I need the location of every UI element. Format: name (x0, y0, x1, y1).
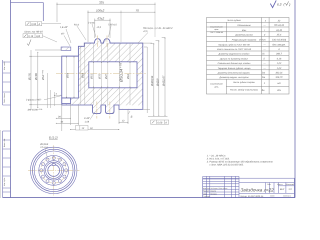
hatched body outline (62, 39, 143, 114)
svg-text:Ø54: Ø54 (67, 73, 70, 79)
svg-text:): ) (288, 3, 290, 7)
svg-text:45°: 45° (61, 33, 65, 36)
svg-text:Ø50,34⁺⁰′²: Ø50,34⁺⁰′² (119, 62, 124, 83)
centerlines (28, 169, 80, 171)
svg-text:1,02: 1,02 (277, 67, 282, 70)
bolt circle (orange) (41, 158, 66, 183)
svg-text:А: А (277, 48, 280, 51)
svg-text:130,4 (13000): 130,4 (13000) (272, 39, 287, 42)
svg-text:Инв. дубл.: Инв. дубл. (3, 177, 6, 186)
svg-text:√2,5: √2,5 (97, 26, 102, 29)
keyway box (62, 98, 71, 104)
svg-text:R1,6: R1,6 (74, 23, 80, 26)
svg-text:Диаметр ролика: Диаметр ролика (234, 34, 253, 37)
svg-text:2 отв.: 2 отв. (87, 21, 95, 24)
svg-text:70: 70 (136, 8, 140, 12)
sheet frame bottom (3, 197, 295, 199)
svg-text:Диаметр делительной окружн.: Диаметр делительной окружн. (217, 72, 251, 75)
svg-text:Т.контр.: Т.контр. (203, 195, 210, 198)
svg-text:0,08: 0,08 (31, 23, 36, 26)
svg-text:Ø198: Ø198 (34, 73, 38, 81)
svg-text:Ø64: Ø64 (82, 73, 85, 79)
svg-text:Число зубьев: Число зубьев (227, 19, 242, 22)
svg-text:0,16: 0,16 (28, 35, 33, 38)
svg-text:ВкУ: ВкУ (280, 188, 285, 191)
svg-text:335: 335 (99, 1, 104, 5)
svg-text:Б: Б (131, 114, 133, 118)
svg-text:1,02: 1,02 (277, 62, 282, 65)
svg-text:Ø75: Ø75 (99, 74, 102, 80)
svg-text:Диаметр окружн. выступов: Диаметр окружн. выступов (219, 76, 250, 79)
small box callout above view (76, 126, 89, 131)
tooth centerlines top (97, 36, 99, 48)
svg-text:44,45: 44,45 (276, 29, 282, 32)
svg-text:1,6×45°: 1,6×45° (60, 26, 68, 29)
svg-text:12 отв.: 12 отв. (40, 146, 49, 149)
central bore window (89, 62, 137, 88)
svg-text:Сопрягаемая: Сопрягаемая (210, 83, 223, 86)
keyway small dims (47, 73, 61, 108)
svg-text:286,7: 286,7 (275, 53, 282, 56)
svg-text:Ø420*: Ø420* (156, 77, 159, 87)
svg-text:2 фаски 1×45°: 2 фаски 1×45° (25, 99, 41, 102)
hole ring (40, 156, 68, 184)
svg-text:3не 40,98⁺⁰′⁰⁸: 3не 40,98⁺⁰′⁰⁸ (28, 109, 43, 112)
svg-text:2×45°: 2×45° (83, 117, 90, 120)
svg-text:Радиальное биение окр. впадин: Радиальное биение окр. впадин (218, 62, 251, 65)
svg-text:0,16: 0,16 (277, 57, 282, 60)
svg-text:Число зубьев сопряж.: Число зубьев сопряж. (233, 81, 256, 84)
svg-text:Петров: Петров (210, 192, 216, 195)
svg-text:Класс точности по ГОСТ 591-69: Класс точности по ГОСТ 591-69 (217, 48, 252, 51)
svg-text:ТВЧ h0,8...1,2 45...50 HRCэ*: ТВЧ h0,8...1,2 45...50 HRCэ* (143, 27, 173, 30)
svg-text:Листов 1: Листов 1 (282, 194, 291, 197)
svg-text:Лист: Лист (269, 194, 275, 197)
svg-text:Масса: Масса (277, 183, 282, 186)
svg-text:Ø176: Ø176 (27, 73, 31, 81)
leaders (64, 24, 148, 46)
svg-text:Профиль зуба по ГОСТ 591-69: Профиль зуба по ГОСТ 591-69 (218, 43, 250, 46)
svg-text:Ø9,5Н9: Ø9,5Н9 (39, 143, 49, 146)
interior diameter dimension lines (67, 43, 131, 105)
svg-text:Ø51: Ø51 (91, 74, 94, 80)
svg-text:Диаметр окружности впадин: Диаметр окружности впадин (218, 53, 250, 56)
svg-text:Взам. инв.: Взам. инв. (3, 138, 6, 147)
svg-text:Звёздочка z=22: Звёздочка z=22 (241, 188, 275, 193)
svg-text:А,В: А,В (35, 35, 40, 38)
svg-text:Торцевое биение зубчат. венца: Торцевое биение зубчат. венца (218, 67, 252, 70)
svg-text:Разрушающая нагрузка: Разрушающая нагрузка (232, 39, 257, 42)
bore band (white window) (62, 56, 79, 98)
svg-text:100±2: 100±2 (96, 8, 105, 12)
svg-text:А: А (164, 121, 167, 124)
axis centerline (orange) (56, 73, 146, 75)
svg-text:Копир. 45-087.3000-№: Копир. 45-087.3000-№ (241, 195, 264, 198)
svg-text:Инв. подл.: Инв. подл. (3, 61, 6, 70)
svg-text:Ø54⁺⁰′⁰⁶: Ø54⁺⁰′⁰⁶ (42, 70, 45, 81)
svg-text:Обозначение: Обозначение (237, 24, 251, 27)
svg-text:7,5E-0,5: 7,5E-0,5 (108, 23, 117, 26)
svg-text:Сопрягаемая: Сопрягаемая (210, 26, 223, 29)
hub circles (44, 161, 63, 180)
svg-text:без смещен.: без смещен. (272, 43, 286, 46)
svg-text:√2,5: √2,5 (143, 30, 148, 33)
roughness mark top-right (270, 0, 276, 7)
left margin strip (2, 60, 4, 105)
table texts (217, 19, 259, 91)
svg-text:Ø432,07: Ø432,07 (163, 75, 166, 87)
svg-text:Допуск на диаметр впадин: Допуск на диаметр впадин (219, 57, 249, 60)
svg-text:Пров.: Пров. (203, 192, 208, 195)
svg-text:ГОСТ 2904-45: ГОСТ 2904-45 (210, 31, 224, 34)
tooth gap centerlines bottom (96, 102, 98, 119)
svg-text:цепь: цепь (214, 85, 218, 88)
outer circles (31, 147, 77, 193)
svg-text:25,4: 25,4 (276, 34, 282, 37)
GD&T box 2 (23, 34, 43, 38)
sheet edge left (0, 130, 2, 198)
GD&T box bottom-right of view (151, 120, 169, 124)
top-left callout bracket (11, 3, 44, 21)
sheet frame right (294, 0, 296, 198)
keyway on bore (52, 164, 55, 166)
svg-text:Ø47: Ø47 (105, 74, 108, 80)
svg-text:1,08: 1,08 (85, 120, 90, 123)
svg-text:Ø63: Ø63 (127, 74, 130, 80)
title block texts (203, 187, 227, 198)
dim 335 (57, 3, 155, 38)
svg-text:Шпон. паз НВ-3Л: Шпон. паз НВ-3Л (25, 31, 44, 34)
dimension arrowheads (tiny) (31, 4, 166, 130)
svg-text:Подп. дата: Подп. дата (3, 93, 6, 103)
GD&T box 1 top-left (26, 22, 61, 26)
svg-text:316,72: 316,72 (275, 76, 283, 79)
svg-text:302,31: 302,31 (275, 72, 283, 75)
svg-text:Расст. между пластинами: Расст. между пластинами (230, 89, 259, 92)
svg-text:с дет. МВА 325.03.01.005-005.: с дет. МВА 325.03.01.005-005. (210, 163, 245, 166)
svg-text:цепь: цепь (214, 28, 218, 31)
sheet frame left (10, 0, 12, 198)
left strip tiny rotated labels (3, 61, 6, 186)
svg-text:ПР-44,45: ПР-44,45 (274, 24, 284, 27)
dim 63±2 (95, 19, 110, 39)
small keyway detail box above hub (61, 47, 71, 50)
svg-text:Б (1:2): Б (1:2) (49, 135, 58, 139)
svg-text:Лит.: Лит. (266, 183, 272, 186)
svg-text:Масштаб: Масштаб (286, 183, 295, 186)
svg-text:кН/кгс: кН/кгс (259, 39, 267, 42)
svg-text:63±2: 63±2 (98, 16, 105, 20)
svg-text:0,08: 0,08 (157, 121, 162, 124)
dim 100±2 / 70 (88, 11, 155, 43)
svg-text:А: А (38, 23, 41, 26)
interior rotated dim texts (67, 73, 131, 80)
unhatched lower-right rim step (119, 105, 142, 109)
svg-text:Ø400,94: Ø400,94 (151, 75, 154, 87)
svg-text:6,3: 6,3 (277, 2, 282, 6)
